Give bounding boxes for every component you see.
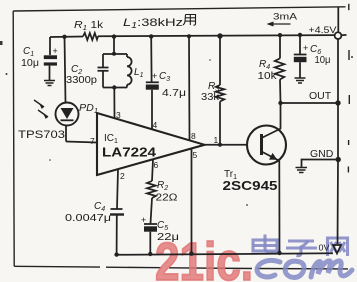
- svg-text:8: 8: [191, 131, 196, 141]
- svg-text:TPS703: TPS703: [18, 129, 65, 141]
- photodiode cathode bar: [61, 119, 74, 121]
- svg-text:IC1: IC1: [104, 133, 118, 145]
- svg-text:10μ: 10μ: [315, 55, 331, 66]
- transistor Tr1 emitter wire: [262, 152, 280, 254]
- svg-text:5: 5: [193, 150, 198, 160]
- svg-text:10μ: 10μ: [21, 58, 39, 69]
- dian: [265, 235, 279, 253]
- wire PD1 cathode down: [65, 126, 67, 142]
- ground under C1: [44, 81, 55, 86]
- svg-text:LA7224: LA7224: [102, 146, 156, 160]
- wire top rail left of R1: [50, 36, 83, 39]
- svg-text:+: +: [141, 215, 146, 225]
- capacitor C2 (left leg of tank): [98, 54, 128, 88]
- pin numbers: [90, 110, 219, 181]
- emitter arrow: [269, 153, 277, 160]
- wire OUT terminal to GND terminal: [337, 103, 339, 160]
- svg-text:33k: 33k: [201, 92, 220, 103]
- junction dots bottom rail: [114, 252, 118, 256]
- svg-text:GND: GND: [310, 148, 334, 160]
- svg-text:6: 6: [154, 160, 159, 170]
- svg-text:3mA: 3mA: [273, 12, 298, 23]
- svg-text:3300p: 3300p: [66, 75, 97, 86]
- capacitor C5: [144, 224, 157, 254]
- zi: [288, 239, 314, 242]
- resistor R3: [216, 85, 225, 102]
- wire R3 branch: [219, 36, 221, 85]
- junction dot R3/base: [218, 143, 222, 147]
- svg-text:R1 1k: R1 1k: [74, 20, 104, 32]
- inductor L1 (right leg of tank): [127, 54, 132, 88]
- svg-text:4: 4: [153, 120, 158, 130]
- capacitor C4: [110, 209, 124, 255]
- transistor Tr1 base bar: [260, 134, 263, 155]
- svg-text:0.0047μ: 0.0047μ: [65, 213, 111, 224]
- svg-text:22Ω: 22Ω: [156, 193, 179, 204]
- wire pin2 branch: [117, 169, 118, 209]
- arrowheads and dots: [40, 22, 341, 257]
- wire pin5 branch: [191, 149, 193, 254]
- capacitor C3: [146, 82, 159, 129]
- watermark dianzi-wang (hand drawn CJK): [253, 235, 348, 257]
- svg-text:22μ: 22μ: [157, 232, 179, 243]
- photodiode PD1 triangle: [61, 108, 74, 119]
- svg-text:C3: C3: [159, 71, 170, 83]
- transistor Tr1 2SC945 circle: [247, 126, 286, 165]
- resistor R4: [275, 58, 285, 79]
- svg-text:1: 1: [214, 135, 219, 145]
- wire C6 branch: [299, 35, 301, 54]
- wire rail to PD1 anode: [65, 37, 66, 103]
- wire pin8 branch: [188, 36, 191, 140]
- wire R2 to C5: [151, 198, 153, 224]
- wire pin6 branch: [152, 160, 153, 182]
- wire tank to pin3: [113, 88, 115, 119]
- svg-text:C5: C5: [157, 220, 168, 232]
- wire tank branch top: [113, 37, 115, 54]
- wire R4 to collector node: [279, 79, 282, 103]
- svg-text:10k: 10k: [258, 71, 278, 82]
- svg-text:L1:38kHz: L1:38kHz: [123, 17, 183, 30]
- junction dots tank: [112, 52, 116, 56]
- watermark 21ic: [155, 232, 253, 282]
- resistor R1: [83, 33, 98, 40]
- svg-text:L1: L1: [134, 67, 144, 79]
- current arrow 3mA: [267, 22, 274, 27]
- svg-text:R4: R4: [259, 59, 270, 71]
- photodiode PD1 circle: [56, 103, 79, 126]
- current arrow line: [268, 23, 291, 25]
- svg-text:C4: C4: [94, 201, 105, 213]
- svg-text:PD1: PD1: [79, 103, 98, 115]
- svg-text:+: +: [152, 71, 157, 81]
- wire GND terminal to 0V terminal: [337, 160, 340, 245]
- junction dot OUT tap: [278, 101, 282, 105]
- light arrow heads: [40, 104, 45, 109]
- resistor R2: [147, 181, 156, 198]
- capacitor C6: [294, 55, 307, 78]
- junction dots top rail: [62, 35, 66, 39]
- terminal 0V triangle: [333, 245, 341, 254]
- svg-text:+4.5V: +4.5V: [309, 25, 337, 35]
- wang: [328, 238, 348, 256]
- wire C1 branch: [49, 37, 51, 55]
- svg-text:+: +: [303, 43, 308, 53]
- wire apex to base: [205, 144, 248, 146]
- svg-text:+: +: [53, 46, 58, 56]
- svg-text:2: 2: [120, 171, 125, 181]
- circuit wires: [34, 7, 347, 255]
- ground GND: [296, 168, 308, 173]
- wire rail to R4: [279, 35, 281, 58]
- svg-text:OUT: OUT: [309, 90, 332, 102]
- svg-text:7: 7: [90, 136, 95, 146]
- wire to pin 7: [66, 142, 97, 143]
- svg-text:0V: 0V: [319, 243, 330, 253]
- wire OUT line: [281, 102, 339, 104]
- svg-text:C1: C1: [23, 46, 34, 58]
- svg-text:3: 3: [116, 110, 121, 120]
- CJK char yong (38kHz-yong) hand drawn: [183, 15, 196, 26]
- transistor Tr1 collector wire: [262, 103, 281, 138]
- wire +4.5V terminal to OUT terminal: [337, 39, 339, 103]
- wire frame top to +4.5V terminal: [337, 7, 339, 32]
- watermark .com script: [257, 260, 352, 277]
- svg-text:2SC945: 2SC945: [223, 178, 278, 193]
- op-amp IC1 LA7224 triangle: [97, 113, 205, 175]
- svg-text:R2: R2: [157, 180, 168, 192]
- terminal dot OUT: [335, 100, 340, 105]
- wire top rail right of R1: [98, 35, 335, 36]
- svg-text:4.7μ: 4.7μ: [162, 88, 186, 99]
- wire GND line: [302, 160, 339, 168]
- ground under C6: [295, 78, 306, 83]
- terminal +4.5V circle: [335, 32, 342, 39]
- capacitor C1: [44, 55, 57, 80]
- terminal dot GND: [336, 157, 341, 162]
- wire C3 branch: [150, 36, 152, 81]
- wire R3 to base node: [219, 102, 221, 145]
- wire bottom rail: [117, 253, 333, 255]
- light arrows into PD1: [34, 100, 48, 117]
